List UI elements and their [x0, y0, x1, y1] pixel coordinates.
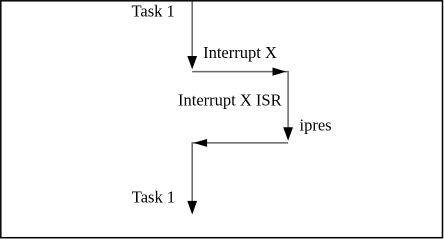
- arrowhead down at end of ISR vertical line: [283, 127, 293, 141]
- arrowhead left at return corner: [193, 139, 207, 147]
- wire: horizontal to Interrupt, corner down: [192, 72, 288, 128]
- svg-text:Task 1: Task 1: [132, 188, 175, 207]
- svg-text:Task 1: Task 1: [132, 2, 175, 21]
- arrowhead right into ISR corner: [273, 68, 287, 76]
- svg-text:ipres: ipres: [300, 115, 332, 134]
- wire: horizontal return left, corner down: [192, 143, 288, 202]
- svg-text:Interrupt X: Interrupt X: [203, 43, 277, 62]
- arrowhead down at end of Task1 line: [187, 56, 197, 69]
- svg-text:Interrupt X ISR: Interrupt X ISR: [178, 90, 282, 109]
- wire: Task1 vertical line down: [191, 2, 193, 58]
- arrowhead down at end of return line: [187, 201, 197, 215]
